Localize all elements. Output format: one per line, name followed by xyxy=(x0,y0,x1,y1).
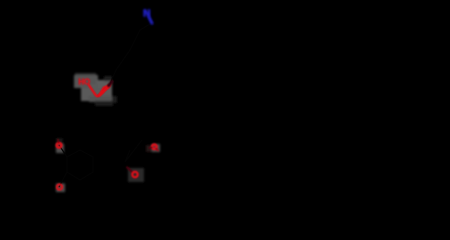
artifact block around methoxy O2 xyxy=(56,184,65,193)
atom O1 (methoxy, filled blob) xyxy=(57,140,62,148)
atom O4 (dioxole, blob) xyxy=(149,145,158,151)
wire bond O2-ring xyxy=(59,172,67,187)
atom N xyxy=(143,8,150,19)
wire ring A xyxy=(67,150,93,180)
atom O2 (methoxy, ring) xyxy=(57,184,62,189)
label HO xyxy=(78,77,90,86)
bond N-C (blue) xyxy=(149,17,152,24)
artifact blocks around HO label xyxy=(74,73,117,106)
wire chain to N xyxy=(110,24,150,84)
artifact block around dioxole O4 xyxy=(146,144,160,152)
faint skeleton bonds (near-invisible on black) xyxy=(59,24,150,187)
wire bond O1-ring xyxy=(59,145,67,157)
atom O3 (dioxole, ring) xyxy=(127,167,138,177)
wedge bond (red, stereo) xyxy=(97,83,112,97)
artifact blocks around dioxole O3 xyxy=(128,168,144,182)
artifact block around methoxy O1 xyxy=(56,138,64,153)
bond O-C (red) xyxy=(89,85,103,96)
wire ring D xyxy=(125,140,142,162)
wedge dark tip xyxy=(109,82,112,86)
